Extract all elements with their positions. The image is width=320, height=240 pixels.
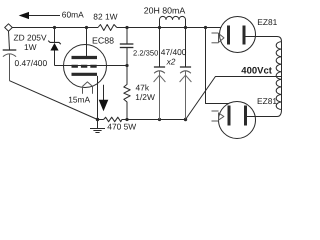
wire: bottom rail start (ground node to 470 resistor) bbox=[98, 119, 104, 121]
rectifier EZ81 (bottom): right anode bar bbox=[244, 106, 247, 126]
svg-text:60mA: 60mA bbox=[62, 10, 84, 20]
node: output terminal diamond bbox=[5, 24, 13, 31]
transformer winding 400Vct (vertical line with humps to the left) bbox=[281, 42, 283, 110]
wire: top rail left (diamond to resistor) bbox=[12, 27, 98, 29]
resistor R 47k 1/2W (vertical zigzag) bbox=[124, 66, 130, 120]
svg-text:82 1W: 82 1W bbox=[93, 12, 117, 22]
rectifier EZ81 (bottom): heater stubs and filament triangle bbox=[212, 111, 224, 121]
capacitor C1 47/400 (left, polarized with arrow) bbox=[154, 28, 166, 120]
junction dot D (choke left / cap1) bbox=[158, 26, 161, 29]
junction dot K (cap2 bottom / centre-tap) bbox=[184, 118, 187, 121]
triode EC88: cathode bar bbox=[72, 73, 98, 76]
rectifier EZ81 (top): heater stubs and filament triangle bbox=[212, 33, 225, 43]
junction dot C (2.2uF tap) bbox=[125, 26, 128, 29]
svg-text:470 5W: 470 5W bbox=[107, 122, 136, 132]
wire: rectifier cathode feed (vertical from rail, bend right to lower tube top) bbox=[206, 28, 229, 104]
junction dot J (cap1 bottom) bbox=[158, 118, 161, 121]
annotation arrow: 60mA (left-pointing) bbox=[19, 12, 60, 19]
triode EC88: anode lead bbox=[86, 28, 88, 57]
svg-text:20H 80mA: 20H 80mA bbox=[144, 6, 186, 16]
rectifier EZ81 (top): envelope bbox=[220, 17, 256, 53]
junction dot A (zener tap) bbox=[53, 26, 56, 29]
triode EC88: anode plate bar bbox=[72, 56, 98, 59]
zener diode ZD 205V 1W bbox=[48, 28, 61, 66]
junction dot H (ground node) bbox=[96, 118, 99, 121]
svg-text:1W: 1W bbox=[24, 42, 37, 52]
triode EC88: envelope circle bbox=[64, 45, 107, 88]
rectifier EZ81 (bottom): envelope bbox=[219, 102, 256, 139]
svg-text:15mA: 15mA bbox=[68, 94, 90, 104]
junction dot B (EC88 anode tap) bbox=[85, 26, 88, 29]
svg-text:EZ81: EZ81 bbox=[257, 17, 277, 27]
svg-text:47/400: 47/400 bbox=[161, 47, 187, 57]
rectifier EZ81 (top): left anode bar bbox=[227, 26, 230, 45]
junction dot F (rectifier cathode tap) bbox=[204, 26, 207, 29]
wire: top rail right (resistor to EZ81 envelope) bbox=[117, 27, 221, 29]
resistor R 470 5W (horizontal zigzag inline) bbox=[104, 117, 122, 122]
svg-text:400Vct: 400Vct bbox=[241, 65, 272, 76]
rectifier EZ81 (bottom): left anode bar bbox=[228, 106, 231, 126]
capacitor C2 47/400 (right, polarized with arrow) bbox=[180, 28, 192, 120]
inductor choke 20H (two stubs + 4 humps above rail) bbox=[160, 16, 186, 27]
svg-text:2.2/350: 2.2/350 bbox=[133, 49, 158, 58]
rectifier EZ81 (top): right anode bar bbox=[243, 26, 246, 45]
wire: centre-tap return (diagonal from ground rail up to winding centre) bbox=[186, 77, 282, 120]
wire: bottom rail continues to centre-tap node bbox=[122, 119, 186, 121]
triode EC88: cathode lead down to ground node bbox=[97, 76, 99, 120]
svg-text:0.47/400: 0.47/400 bbox=[15, 58, 48, 68]
rectifier EZ81 (bottom): anode lead to winding bottom bbox=[247, 110, 282, 117]
capacitor C 0.47/400 (polarized, under diamond) bbox=[3, 31, 17, 80]
wire: grid line (zener to 47k junction) bbox=[55, 65, 128, 67]
resistor R 82 1W (zigzag inline) bbox=[98, 25, 117, 31]
junction dot G (grid / 47k / 2.2 cap) bbox=[125, 64, 128, 67]
triode EC88: heater chevron and pins bbox=[83, 82, 93, 94]
svg-text:EZ81: EZ81 bbox=[257, 96, 277, 106]
capacitor C 2.2/350 bbox=[120, 28, 134, 66]
triode EC88: grid (dashed) bbox=[72, 65, 98, 68]
ground symbol bbox=[90, 120, 105, 133]
junction dot E (choke right / cap2) bbox=[184, 26, 187, 29]
svg-text:EC88: EC88 bbox=[92, 36, 114, 46]
wire: diagonal 0.47 cap return to ground node bbox=[10, 81, 98, 120]
svg-text:x2: x2 bbox=[166, 56, 176, 66]
annotation arrow: 15mA (down-pointing) bbox=[99, 85, 109, 112]
rectifier EZ81 (top): anode lead to winding top bbox=[246, 37, 282, 42]
junction dot I (47k bottom) bbox=[125, 118, 128, 121]
svg-text:1/2W: 1/2W bbox=[135, 92, 155, 102]
